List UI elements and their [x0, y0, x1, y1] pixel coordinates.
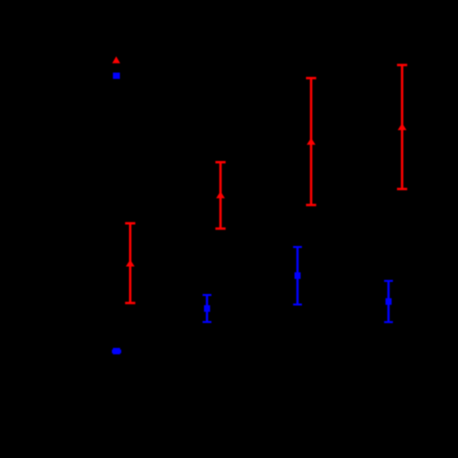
red triangle marker R1: [126, 260, 135, 267]
red error bar R4: [397, 65, 407, 189]
blue square marker B1: [113, 348, 120, 354]
blue error bar B3: [293, 247, 302, 305]
red triangle marker R3: [307, 138, 316, 145]
blue error bar B2: [203, 295, 212, 322]
blue square marker B2: [204, 305, 210, 312]
blue square marker B4: [386, 298, 392, 305]
red error bar R3: [306, 78, 316, 205]
blue error bar B4: [384, 281, 393, 322]
red triangle marker R2: [216, 191, 225, 198]
legend marker: blue square: [113, 73, 120, 79]
red error bar R1: [125, 223, 135, 303]
blue error bar B1 (tiny): [112, 351, 121, 353]
red error bar R2: [215, 162, 225, 228]
red triangle marker R4: [398, 123, 407, 130]
legend marker: red triangle: [112, 56, 120, 63]
blue square marker B3: [295, 272, 301, 279]
